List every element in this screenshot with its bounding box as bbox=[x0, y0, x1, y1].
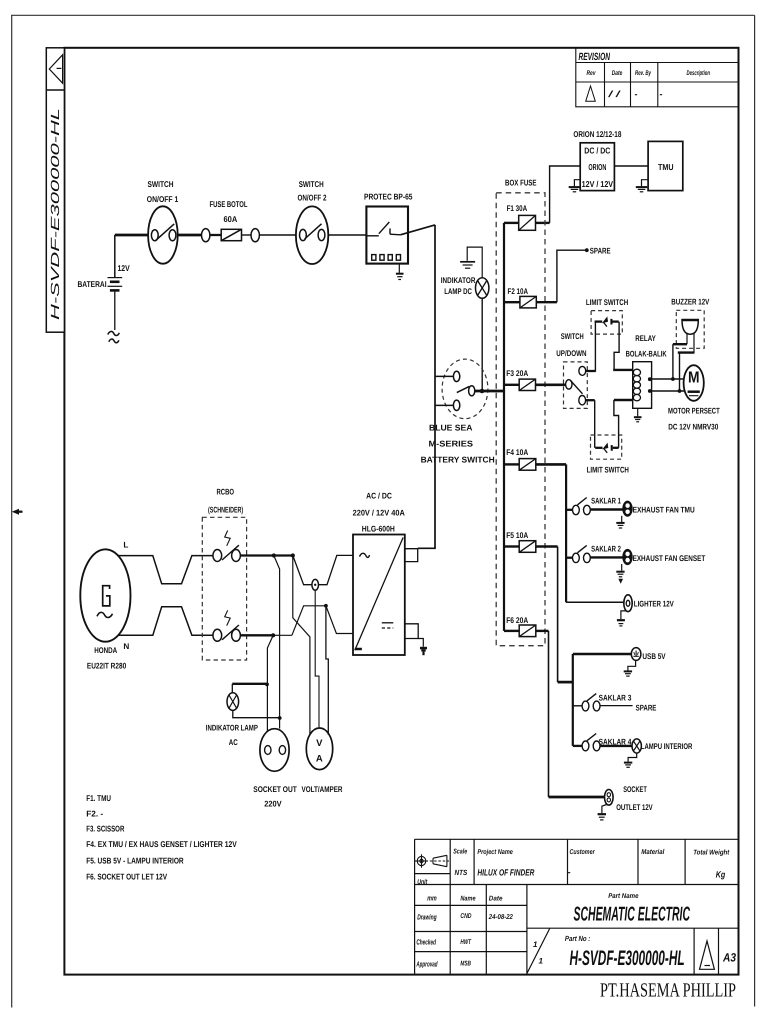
wire limit lower to relay bbox=[614, 400, 633, 448]
ground usb bbox=[624, 660, 636, 676]
wire L1 down to socket bbox=[274, 556, 280, 729]
buzzer leads bbox=[673, 333, 694, 391]
wire generator L to RCBO bbox=[119, 556, 214, 584]
protec ground bbox=[396, 264, 404, 280]
svg-text:Project Name: Project Name bbox=[477, 848, 513, 856]
wire saklar3 spare bbox=[600, 705, 633, 707]
wire generator N to RCBO bbox=[119, 607, 214, 636]
node L1 bbox=[272, 553, 276, 557]
svg-text:SWITCH: SWITCH bbox=[299, 179, 324, 189]
title block bbox=[415, 839, 739, 974]
converter ORION 12/12-18 bbox=[580, 143, 614, 191]
stub to saklar3 bbox=[573, 705, 582, 707]
wire saklar1 to fan bbox=[590, 508, 623, 510]
switch SAKLAR 2 bbox=[573, 545, 591, 562]
svg-text:Rev: Rev bbox=[587, 70, 597, 77]
relay coil bbox=[633, 369, 640, 401]
fuse F2 10A bbox=[504, 287, 557, 308]
svg-text:SPARE: SPARE bbox=[590, 247, 611, 256]
wire saklar4 to lamp bbox=[600, 745, 632, 747]
switch UP/DOWN contacts bbox=[566, 366, 586, 405]
svg-text:LAMPU INTERIOR: LAMPU INTERIOR bbox=[641, 742, 693, 751]
svg-text:HILUX OF FINDER: HILUX OF FINDER bbox=[477, 868, 534, 878]
socket SOCKET OUTLET 12V bbox=[605, 790, 614, 806]
wire lamp DC down to junction bbox=[481, 298, 483, 391]
limit switch lower dashed box bbox=[591, 435, 622, 459]
svg-text:RELAY: RELAY bbox=[635, 334, 656, 343]
ground above lamp DC bbox=[460, 262, 475, 268]
node SPARE bbox=[585, 248, 589, 252]
junction dot bbox=[480, 389, 485, 394]
limit switch upper contacts bbox=[595, 316, 619, 326]
svg-text:F4. EX TMU / EX HAUS GENSET /: F4. EX TMU / EX HAUS GENSET / LIGHTER 12… bbox=[86, 839, 237, 849]
charger AC tilde bbox=[360, 553, 370, 557]
F4 distribution vertical bbox=[565, 464, 567, 602]
wire to USB bbox=[573, 653, 632, 656]
title block projection symbol bbox=[415, 854, 449, 867]
svg-text:Material: Material bbox=[641, 848, 665, 856]
svg-text:60A: 60A bbox=[224, 214, 238, 224]
indicator lamp DC bbox=[441, 276, 476, 296]
svg-text:BATERAI: BATERAI bbox=[78, 279, 107, 289]
wire lamp AC bottom bbox=[233, 710, 280, 717]
wire N crossover to charger bbox=[273, 606, 352, 636]
wire F4 to lighter bbox=[566, 601, 623, 603]
svg-text:DC 12V NMRV30: DC 12V NMRV30 bbox=[668, 423, 718, 432]
wire lamp AC feed bbox=[232, 683, 267, 685]
chassis ground arrow bbox=[420, 647, 427, 655]
terminal circle 2 bbox=[251, 229, 259, 242]
svg-text:SCHEMATIC ELECTRIC: SCHEMATIC ELECTRIC bbox=[574, 904, 691, 926]
fuse bus vertical wire bbox=[503, 223, 505, 631]
RCBO breaker N bbox=[213, 610, 241, 641]
svg-text:BUZZER 12V: BUZZER 12V bbox=[671, 297, 709, 306]
wire fuse to terminal2 bbox=[242, 234, 252, 236]
switch SAKLAR 1 bbox=[573, 498, 591, 515]
svg-text:RCBO: RCBO bbox=[217, 487, 235, 496]
battery switch BLUE SEA dashed circle bbox=[442, 359, 488, 419]
svg-text:MSB: MSB bbox=[460, 961, 471, 968]
svg-text:F2. -: F2. - bbox=[86, 809, 103, 819]
stub to saklar2 bbox=[566, 557, 573, 559]
indicator lamp AC labels bbox=[206, 723, 258, 747]
svg-text:-: - bbox=[660, 89, 663, 99]
svg-text:LIMIT SWITCH: LIMIT SWITCH bbox=[587, 465, 629, 474]
wire lamp DC to ground bbox=[467, 247, 482, 278]
fuse F1 30A bbox=[504, 204, 536, 230]
svg-text:Name: Name bbox=[460, 895, 475, 902]
ground fan TMU bbox=[616, 516, 624, 528]
svg-text:Part Name: Part Name bbox=[608, 893, 638, 900]
svg-text:Drawing: Drawing bbox=[417, 912, 437, 921]
lamp LAMPU INTERIOR bbox=[632, 739, 641, 753]
wire relay to motor top bbox=[650, 378, 684, 380]
orion ground bbox=[569, 180, 581, 192]
svg-text:Checked: Checked bbox=[416, 938, 436, 947]
node L2 bbox=[291, 553, 295, 557]
svg-text:Scale: Scale bbox=[453, 848, 467, 856]
svg-text:UP/DOWN: UP/DOWN bbox=[556, 349, 586, 358]
svg-text:12V: 12V bbox=[118, 263, 131, 273]
drawing frame bbox=[64, 48, 738, 975]
svg-text:L: L bbox=[123, 541, 128, 550]
switch SAKLAR 4 bbox=[582, 734, 600, 751]
svg-text:1: 1 bbox=[533, 940, 538, 949]
svg-text:mm: mm bbox=[427, 893, 437, 902]
wire charger minus to ground arrow bbox=[418, 639, 423, 647]
wire limit upper to relay bbox=[613, 322, 633, 370]
revision table bbox=[576, 48, 739, 107]
svg-text:Rev. By: Rev. By bbox=[635, 70, 652, 77]
svg-text:M: M bbox=[688, 369, 700, 386]
fan EXHAUST FAN TMU bbox=[622, 501, 632, 517]
svg-text:CND: CND bbox=[460, 913, 471, 920]
svg-text:FUSE BOTOL: FUSE BOTOL bbox=[210, 199, 248, 209]
node lamp AC top bbox=[265, 683, 269, 687]
generator tilde bbox=[97, 612, 113, 617]
wire L RCBO to junctions bbox=[240, 554, 293, 556]
svg-text:F3. SCISSOR: F3. SCISSOR bbox=[86, 823, 124, 833]
charger minus pin bbox=[405, 624, 418, 639]
title block texts bbox=[416, 848, 736, 970]
ground lampu interior bbox=[624, 753, 637, 767]
wire F2 to SPARE bbox=[557, 250, 586, 302]
buzzer horn bbox=[682, 320, 698, 335]
svg-text:-: - bbox=[635, 89, 638, 99]
fan EXHAUST FAN GENSET bbox=[622, 549, 632, 565]
switch SAKLAR 3 bbox=[582, 694, 600, 711]
svg-text:-: - bbox=[568, 867, 571, 877]
generator G glyph bbox=[103, 586, 110, 606]
revision table titles bbox=[579, 51, 711, 99]
svg-text:F5 10A: F5 10A bbox=[506, 531, 528, 540]
svg-text:220V: 220V bbox=[264, 799, 282, 808]
page centering mark arrow bbox=[12, 509, 23, 515]
switch UP/DOWN dashed box bbox=[564, 362, 588, 409]
svg-text:24-08-22: 24-08-22 bbox=[488, 914, 513, 921]
document label strip bbox=[46, 48, 64, 332]
charger diagonal bbox=[355, 538, 403, 651]
node motor bottom bbox=[678, 389, 682, 393]
relay BOLAK-BALIK labels bbox=[626, 334, 667, 359]
node lamp AC bottom bbox=[278, 716, 282, 720]
svg-text:SPARE: SPARE bbox=[636, 703, 657, 712]
svg-text:NTS: NTS bbox=[455, 868, 468, 877]
svg-text:Part No :: Part No : bbox=[565, 934, 591, 943]
motor PERSECT bbox=[684, 365, 704, 401]
node N2 bbox=[324, 604, 328, 608]
charger AC/DC HLG-600H labels bbox=[353, 492, 405, 534]
svg-text:SAKLAR 1: SAKLAR 1 bbox=[591, 497, 621, 506]
fuse list notes bbox=[86, 793, 237, 881]
svg-text:EXHAUST FAN TMU: EXHAUST FAN TMU bbox=[633, 506, 695, 515]
breaker terminal squares bbox=[372, 255, 401, 261]
fuse F6 20A bbox=[504, 616, 549, 637]
ground socket outlet bbox=[598, 805, 607, 820]
revision row triangle bbox=[586, 86, 596, 101]
svg-text:USB 5V: USB 5V bbox=[642, 652, 666, 661]
socket SOCKET OUT 220V bbox=[260, 729, 289, 772]
battery switch contacts bbox=[453, 371, 474, 410]
buzzer dashed box bbox=[676, 310, 704, 348]
svg-text:N: N bbox=[123, 642, 129, 651]
relay output nodes bbox=[648, 377, 652, 381]
svg-text:BOX FUSE: BOX FUSE bbox=[505, 177, 537, 187]
wires up/down outputs bbox=[586, 322, 596, 448]
svg-text:EU22IT R280: EU22IT R280 bbox=[87, 662, 127, 671]
charger 12V+ pin bbox=[405, 549, 418, 562]
generator HONDA EU22IT bbox=[80, 549, 130, 641]
svg-text:(SCHNEIDER): (SCHNEIDER) bbox=[208, 506, 243, 515]
svg-text:Date: Date bbox=[489, 895, 503, 902]
wire battery to switch1 bbox=[115, 234, 149, 237]
battery BATERAI bbox=[108, 235, 123, 330]
svg-text:F6. SOCKET OUT LET 12V: F6. SOCKET OUT LET 12V bbox=[86, 871, 167, 881]
lighter LIGHTER 12V bbox=[624, 595, 632, 612]
svg-text:ON/OFF 2: ON/OFF 2 bbox=[298, 193, 327, 203]
fuse F4 10A bbox=[504, 448, 566, 470]
svg-text:HWT: HWT bbox=[460, 939, 471, 946]
svg-text:Unit: Unit bbox=[417, 878, 428, 886]
svg-text:LIMIT SWITCH: LIMIT SWITCH bbox=[586, 298, 628, 307]
svg-text:F3 20A: F3 20A bbox=[506, 369, 528, 378]
charger DC mark bbox=[382, 623, 394, 628]
wire N1 down to socket bbox=[267, 635, 273, 731]
svg-text:LAMP DC: LAMP DC bbox=[444, 287, 472, 296]
module TMU bbox=[648, 141, 683, 190]
switch ON/OFF 1 bbox=[148, 206, 178, 263]
svg-text:Total Weight: Total Weight bbox=[693, 849, 730, 857]
ground lighter bbox=[617, 611, 626, 626]
svg-text:INDIKATOR LAMP: INDIKATOR LAMP bbox=[206, 723, 258, 732]
relay ground bbox=[634, 408, 642, 422]
charger box bbox=[353, 535, 405, 656]
current tap circle bbox=[312, 579, 319, 590]
svg-text:SOCKET OUT: SOCKET OUT bbox=[253, 785, 296, 794]
switch ON/OFF 2 bbox=[296, 206, 328, 264]
svg-text:F1 30A: F1 30A bbox=[507, 204, 528, 213]
RCBO labels bbox=[208, 487, 243, 514]
voltmeter VOLT/AMPER bbox=[306, 728, 332, 770]
limit switch upper dashed box bbox=[591, 311, 622, 335]
wire N RCBO to junction bbox=[240, 634, 274, 636]
svg-text:AC: AC bbox=[229, 738, 238, 747]
wire charger pin to battery line bbox=[418, 547, 436, 549]
node motor top bbox=[671, 377, 675, 381]
svg-text:Date: Date bbox=[612, 70, 623, 77]
switch UP/DOWN labels bbox=[556, 332, 586, 358]
indicator lamp AC bbox=[227, 684, 239, 711]
svg-text:LIGHTER 12V: LIGHTER 12V bbox=[634, 600, 674, 609]
F5 feed down and over bbox=[558, 547, 573, 746]
svg-text:SAKLAR 3: SAKLAR 3 bbox=[599, 694, 632, 703]
svg-text:MOTOR PERSECT: MOTOR PERSECT bbox=[668, 407, 720, 416]
svg-text:M-SERIES: M-SERIES bbox=[429, 438, 474, 448]
svg-text:F6 20A: F6 20A bbox=[506, 616, 528, 625]
wire tap down to voltmeter bbox=[315, 590, 319, 727]
svg-text:HONDA: HONDA bbox=[94, 646, 117, 655]
usb USB 5V bbox=[631, 648, 641, 661]
svg-text:F2 10A: F2 10A bbox=[508, 287, 529, 296]
svg-text:F1. TMU: F1. TMU bbox=[86, 793, 111, 803]
terminal circle bbox=[202, 229, 210, 242]
svg-text:PROTEC BP-65: PROTEC BP-65 bbox=[364, 191, 413, 201]
svg-text:1: 1 bbox=[539, 956, 544, 965]
RCBO breaker L bbox=[213, 531, 241, 562]
breaker PROTEC BP-65 bbox=[366, 207, 408, 264]
wire switch2 to protec bbox=[328, 234, 366, 236]
svg-text:TMU: TMU bbox=[658, 162, 674, 172]
svg-text:A: A bbox=[316, 753, 323, 764]
svg-text:BOLAK-BALIK: BOLAK-BALIK bbox=[626, 350, 667, 359]
svg-text:VOLT/AMPER: VOLT/AMPER bbox=[302, 785, 343, 794]
svg-text:SOCKET: SOCKET bbox=[623, 785, 647, 794]
F6 feed to socket outlet bbox=[549, 631, 605, 797]
svg-text:H-SVDF-E300000-HL: H-SVDF-E300000-HL bbox=[570, 947, 685, 970]
svg-text:OUTLET 12V: OUTLET 12V bbox=[616, 803, 653, 812]
svg-text:SWITCH: SWITCH bbox=[148, 179, 174, 189]
svg-text:Customer: Customer bbox=[570, 849, 596, 856]
svg-text:A3: A3 bbox=[722, 951, 736, 965]
fuse FUSE BOTOL 60A bbox=[221, 229, 241, 240]
limit switch lower contacts bbox=[595, 443, 618, 453]
svg-text:V: V bbox=[316, 738, 323, 749]
svg-text:AC / DC: AC / DC bbox=[366, 492, 392, 501]
battery switch stubs bbox=[435, 376, 453, 405]
box fuse dashed enclosure bbox=[496, 193, 545, 646]
wire L neck to charger bbox=[293, 555, 352, 584]
wire terminal to fuse bbox=[210, 234, 221, 236]
RCBO dashed box bbox=[202, 517, 246, 660]
svg-text:BLUE SEA: BLUE SEA bbox=[429, 422, 473, 432]
relay box bbox=[633, 362, 652, 409]
svg-text:SAKLAR 2: SAKLAR 2 bbox=[591, 545, 621, 554]
svg-text:12V / 12V: 12V / 12V bbox=[582, 179, 614, 189]
svg-text:Approvad: Approvad bbox=[416, 959, 438, 968]
battery 12V label bbox=[78, 263, 131, 289]
fuse F3 20A bbox=[504, 369, 566, 391]
svg-text:HLG-600H: HLG-600H bbox=[362, 525, 395, 534]
wire switch1 to terminal bbox=[177, 234, 201, 237]
generator labels bbox=[87, 541, 129, 671]
fuse F5 10A bbox=[504, 531, 558, 552]
wire terminal2 to switch2 bbox=[259, 234, 296, 236]
svg-text:H-SVDF-E300000-HL: H-SVDF-E300000-HL bbox=[48, 108, 62, 320]
svg-text:BATTERY SWITCH: BATTERY SWITCH bbox=[421, 454, 495, 464]
title block triangle bbox=[700, 941, 715, 969]
svg-text:220V / 12V 40A: 220V / 12V 40A bbox=[353, 508, 405, 517]
wire battery switch output to bus bbox=[474, 390, 504, 393]
svg-text:PT.HASEMA PHILLIP: PT.HASEMA PHILLIP bbox=[600, 980, 736, 1002]
ground fan GENSET bbox=[616, 564, 624, 582]
wire F1 to ORION bbox=[536, 166, 581, 223]
svg-text:F5. USB 5V - LAMPU INTERIOR: F5. USB 5V - LAMPU INTERIOR bbox=[86, 856, 184, 866]
svg-text:F4 10A: F4 10A bbox=[506, 448, 528, 457]
svg-text:INDIKATOR: INDIKATOR bbox=[441, 276, 476, 285]
wire relay to motor bottom bbox=[650, 390, 684, 392]
strip triangle symbol bbox=[49, 55, 62, 83]
wire N2 down to voltmeter bbox=[326, 606, 328, 735]
charger minus mark bbox=[355, 648, 362, 651]
tmu ground bbox=[636, 180, 648, 192]
svg-text:/ /: / / bbox=[607, 89, 622, 99]
svg-text:ON/OFF 1: ON/OFF 1 bbox=[147, 194, 179, 204]
wire saklar2 to fan bbox=[590, 556, 623, 558]
battery switch labels bbox=[421, 422, 495, 464]
stub to saklar1 bbox=[566, 509, 573, 511]
svg-text:DC / DC: DC / DC bbox=[584, 146, 610, 156]
svg-text:EXHAUST FAN GENSET: EXHAUST FAN GENSET bbox=[633, 554, 706, 563]
wire L2 down to voltmeter bbox=[293, 556, 310, 735]
svg-text:ORION: ORION bbox=[588, 162, 606, 172]
stub to saklar4 bbox=[573, 745, 582, 747]
battery ground squiggle bbox=[108, 331, 120, 342]
wire orion to TMU bbox=[614, 165, 648, 167]
svg-text:Kg: Kg bbox=[716, 870, 726, 880]
svg-text:REVISION: REVISION bbox=[579, 51, 611, 63]
svg-text:ORION 12/12-18: ORION 12/12-18 bbox=[573, 129, 621, 139]
wire protec to battery switch vertical bbox=[400, 225, 435, 548]
svg-text:Description: Description bbox=[687, 70, 711, 77]
node N1 bbox=[271, 633, 275, 637]
svg-text:SWITCH: SWITCH bbox=[561, 332, 584, 341]
